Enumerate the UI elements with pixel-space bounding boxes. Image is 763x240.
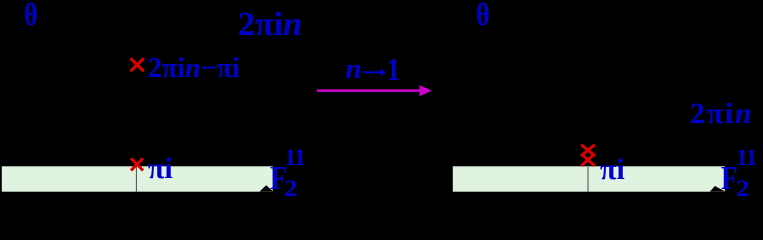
label pi i right xyxy=(600,155,625,185)
branch point tick line left xyxy=(135,164,137,192)
label 1 of n->1 xyxy=(387,53,400,85)
label F_2^11 right : superscript 11 xyxy=(736,146,757,169)
branch-cut bar right xyxy=(453,166,725,191)
label theta right xyxy=(476,0,490,30)
label 2 pi i n - pi i xyxy=(148,55,240,83)
axis arrowhead left bar xyxy=(260,185,273,191)
cross mark lower right xyxy=(581,154,595,166)
limit arrow head (magenta) xyxy=(420,85,432,96)
label n of n->1 xyxy=(346,55,362,84)
label 2 pi i n top xyxy=(238,8,302,42)
branch point tick line right xyxy=(587,165,589,192)
axis arrowhead right bar xyxy=(710,186,725,192)
label pi i left xyxy=(148,154,173,184)
blue to-arrow of label n->1 xyxy=(363,71,382,73)
label F_2^11 left : F xyxy=(270,162,287,196)
label F_2^11 left : subscript 2 xyxy=(284,177,298,200)
label F_2^11 left : superscript 11 xyxy=(285,146,306,169)
cross mark upper right xyxy=(581,145,595,156)
cross mark at pi i left xyxy=(131,158,143,170)
branch-cut bar left xyxy=(2,166,273,191)
label F_2^11 right : subscript 2 xyxy=(736,177,750,200)
label 2 pi i n right xyxy=(690,99,753,129)
limit arrow shaft n to 1 (magenta) xyxy=(317,89,421,92)
label F_2^11 right : F xyxy=(721,162,738,196)
label theta left xyxy=(24,0,38,30)
cross mark at 2pi i n - pi i xyxy=(131,58,144,71)
